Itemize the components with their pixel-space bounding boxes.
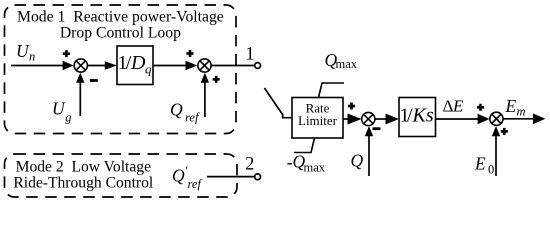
svg-text:Mode 2 Low Voltage: Mode 2 Low Voltage: [16, 159, 152, 176]
wire 1/Ks to S4: [436, 114, 490, 124]
label -Qmax: [287, 152, 326, 175]
plus sign at S3: [348, 103, 355, 110]
label 1: [245, 44, 254, 64]
upper limit flag: [319, 83, 345, 98]
node E0 label: [474, 154, 494, 177]
label Em: [505, 96, 526, 119]
block 1/Dq: [117, 46, 153, 85]
mode 2 dashed box: [5, 154, 238, 197]
svg-text:Ks: Ks: [412, 105, 434, 127]
svg-text:Drop Control Loop: Drop Control Loop: [60, 25, 181, 42]
svg-text:Q: Q: [172, 166, 185, 186]
svg-text:ref: ref: [188, 177, 203, 191]
lower limit flag: [294, 138, 315, 153]
summing junction S3: [362, 112, 375, 125]
mode 1 title: [17, 9, 224, 42]
node Qref2 label: [172, 163, 202, 191]
plus sign at S2 top: [186, 50, 193, 57]
wire block to S2: [153, 61, 197, 70]
svg-text:2: 2: [245, 155, 254, 175]
wire Un input: [11, 61, 74, 70]
mode 1 dashed box: [5, 5, 237, 134]
svg-text:E: E: [474, 154, 486, 174]
plus sign at S1: [63, 50, 70, 57]
block 1/Ks: [399, 98, 436, 137]
svg-text:n: n: [29, 49, 35, 63]
svg-text:max: max: [304, 161, 326, 175]
switch arm: [264, 88, 292, 118]
wire S3 to block 1/Ks: [375, 114, 399, 125]
svg-text:Limiter: Limiter: [298, 113, 338, 128]
minus sign at S3: [373, 127, 381, 130]
plus sign at S4 top: [477, 104, 484, 111]
svg-text:Q: Q: [170, 100, 183, 120]
node Un label: [16, 41, 35, 63]
svg-text:max: max: [336, 57, 358, 71]
svg-text:Δ: Δ: [443, 97, 454, 116]
plus sign at S2 bottom: [213, 76, 220, 83]
wire Em output: [503, 114, 546, 125]
label Qmax: [325, 50, 358, 71]
node Qref label: [170, 100, 200, 125]
node Ug label: [52, 99, 72, 125]
node Q label: [351, 151, 364, 171]
minus sign at S1: [90, 79, 98, 82]
summing junction S2: [198, 59, 211, 72]
plus sign at S4 bottom: [501, 128, 508, 135]
svg-text:ref: ref: [185, 111, 200, 125]
wire Qref input: [201, 73, 209, 117]
wire E0 input: [492, 126, 500, 176]
svg-text:Ride-Through Control: Ride-Through Control: [13, 174, 154, 191]
wire Ug input: [76, 73, 84, 116]
label 2: [245, 155, 254, 175]
svg-text:0: 0: [488, 162, 494, 176]
svg-text:Mode 1 Reactive power-Voltage: Mode 1 Reactive power-Voltage: [17, 9, 224, 26]
wire rate limiter to S3: [343, 114, 362, 125]
svg-text:E: E: [505, 96, 517, 116]
svg-text:q: q: [145, 62, 152, 77]
label dE: [443, 97, 465, 116]
svg-text:m: m: [517, 105, 526, 119]
svg-text:U: U: [52, 99, 66, 119]
terminal node 1: [255, 63, 261, 69]
terminal node 2: [255, 174, 261, 180]
svg-text:U: U: [16, 41, 30, 61]
block rate limiter: [292, 98, 343, 139]
wire Qref2 to terminal 2: [207, 176, 255, 178]
svg-text:E: E: [452, 97, 464, 116]
svg-text:1: 1: [245, 44, 254, 64]
svg-text:Q: Q: [351, 151, 364, 171]
wire S2 to terminal 1: [211, 65, 255, 67]
svg-text:′: ′: [186, 163, 189, 177]
svg-text:g: g: [65, 111, 71, 125]
wire S1 to block: [87, 61, 117, 70]
summing junction S1: [74, 59, 87, 72]
mode 2 title: [13, 159, 154, 192]
wire Q input: [365, 126, 373, 176]
summing junction S4: [490, 112, 503, 125]
svg-text:D: D: [130, 52, 146, 74]
